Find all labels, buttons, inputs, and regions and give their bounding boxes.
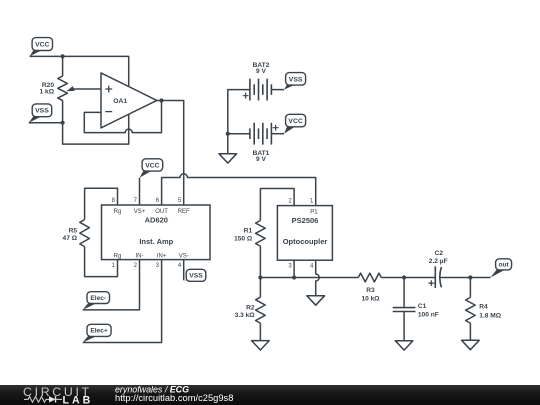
resistor R1 150 Ω <box>234 221 265 247</box>
wire AD620 pin 4 VS- to VSS flag <box>183 260 185 281</box>
wire BAT1 negative to battery junction <box>228 133 250 135</box>
wire OA1 feedback out to -in <box>84 101 161 133</box>
svg-text:VSS: VSS <box>189 273 203 280</box>
svg-text:out: out <box>498 262 509 269</box>
capacitor C2 2.2 µF polarized <box>428 250 447 288</box>
node R20 top <box>61 54 65 58</box>
svg-text:REF: REF <box>178 209 190 215</box>
wire R3 to C2 <box>381 277 435 279</box>
svg-text:IN+: IN+ <box>157 253 167 259</box>
net flag Elec- <box>83 292 110 310</box>
svg-text:R1: R1 <box>244 227 253 234</box>
ground (R2) <box>252 341 270 350</box>
svg-text:P1: P1 <box>310 209 318 215</box>
node R1 R2 rail <box>258 275 262 279</box>
net flag VSS (AD620 VS-) <box>184 269 206 281</box>
net flag out <box>491 259 512 278</box>
node R20 bottom <box>61 121 65 125</box>
net flag Elec+ <box>83 324 111 342</box>
svg-text:VSS: VSS <box>35 108 49 115</box>
wire AD620 pin 8 Rg to R5 top <box>85 188 118 219</box>
resistor R2 3.3 kΩ <box>235 297 266 323</box>
svg-text:3.3 kΩ: 3.3 kΩ <box>235 312 256 319</box>
svg-text:VS+: VS+ <box>134 209 146 215</box>
svg-text:9 V: 9 V <box>256 156 266 163</box>
wire node to R4 top <box>469 278 471 298</box>
node R4 tap <box>468 275 472 279</box>
svg-text:100 nF: 100 nF <box>418 311 439 318</box>
wire AD620 pin 6 OUT to PS2506 pin 1 <box>162 174 316 206</box>
op-amp OA1 <box>101 73 157 128</box>
net flag VCC (R20 top) <box>30 38 53 57</box>
svg-text:R5: R5 <box>69 228 78 235</box>
svg-text:1 kΩ: 1 kΩ <box>40 89 55 96</box>
ground (R4) <box>462 340 480 349</box>
svg-text:Elec+: Elec+ <box>90 328 108 335</box>
svg-text:Optocoupler: Optocoupler <box>283 237 328 246</box>
wire VSS flag to R20 bottom node <box>29 122 63 124</box>
CircuitLab footer bar <box>0 385 540 405</box>
svg-text:R3: R3 <box>366 287 375 294</box>
wire R2 bottom to ground <box>259 323 261 341</box>
wire C2 to out flag <box>440 277 490 279</box>
resistor R5 47 Ω <box>63 220 90 247</box>
svg-text:Rg: Rg <box>114 253 122 259</box>
wire R20 top node to OA1 V+ pin <box>63 56 129 86</box>
wire BAT2 positive to battery junction <box>228 90 250 134</box>
svg-text:10 kΩ: 10 kΩ <box>361 296 380 303</box>
wire R5 bottom to AD620 pin 1 Rg <box>85 247 118 277</box>
svg-text:VS-: VS- <box>179 253 189 259</box>
IC U1 AD620 instrumentation amplifier <box>102 198 211 269</box>
resistor R3 10 kΩ <box>358 273 381 303</box>
wire R1 bottom to rail node <box>259 246 261 277</box>
svg-text:VCC: VCC <box>145 162 159 169</box>
svg-text:OUT: OUT <box>155 209 168 215</box>
svg-text:AD620: AD620 <box>145 216 168 225</box>
capacitor C1 100 nF <box>393 303 439 319</box>
wire AD620 pin 2 IN- to Elec- flag <box>83 260 140 310</box>
svg-text:1.8 MΩ: 1.8 MΩ <box>479 312 501 319</box>
net flag VCC (BAT1) <box>284 114 306 133</box>
ground (PS2506 pin 4) <box>307 296 325 305</box>
svg-text:http://circuitlab.com/c25g9s8: http://circuitlab.com/c25g9s8 <box>115 393 233 403</box>
svg-text:IN-: IN- <box>136 253 144 259</box>
svg-text:9 V: 9 V <box>256 68 266 75</box>
svg-text:OA1: OA1 <box>113 98 127 105</box>
svg-text:R4: R4 <box>479 304 488 311</box>
footer text <box>115 384 233 403</box>
svg-text:2.2 µF: 2.2 µF <box>429 258 448 265</box>
wire battery junction to ground <box>227 134 229 154</box>
wire BAT1 positive to VCC flag <box>271 133 284 135</box>
potentiometer R20 1 kΩ <box>40 56 75 122</box>
wire node to C1 top plate <box>403 278 405 308</box>
wire PS2506 pin 4 to ground (hops rail) <box>316 260 320 296</box>
wire PS2506 pin 3 to rail <box>293 260 295 277</box>
svg-text:C2: C2 <box>435 250 444 257</box>
CircuitLab logo <box>23 385 93 405</box>
resistor R4 1.8 MΩ <box>466 297 502 323</box>
wire PS2506 pin 2 to R1 top <box>260 189 294 221</box>
svg-text:LAB: LAB <box>63 394 94 405</box>
svg-text:Elec-: Elec- <box>90 295 106 302</box>
wire OA1 output to AD620 REF pin 5 <box>157 101 184 206</box>
net flag VCC (AD620 VS+) <box>140 159 163 178</box>
wire rail to R3 <box>260 277 358 279</box>
svg-text:VCC: VCC <box>288 118 302 125</box>
svg-text:150 Ω: 150 Ω <box>234 235 253 242</box>
svg-text:Inst. Amp: Inst. Amp <box>139 237 173 246</box>
wire BAT2 negative to VSS flag <box>271 89 284 91</box>
svg-text:R2: R2 <box>246 305 255 312</box>
wire VCC flag to R20 top node <box>30 55 63 57</box>
battery BAT2 9 V <box>243 62 272 101</box>
node C1 tap <box>402 275 406 279</box>
ground (C1) <box>395 341 413 350</box>
wire OA1 +in to R20 wiper <box>73 88 102 90</box>
ground (batteries) <box>219 154 237 163</box>
wire VCC flag to AD620 pin 7 VS+ <box>139 178 141 205</box>
svg-text:47 Ω: 47 Ω <box>63 235 78 242</box>
wire C1 bottom plate to ground <box>403 312 405 341</box>
svg-text:Rg: Rg <box>114 209 122 215</box>
svg-text:VCC: VCC <box>35 42 49 49</box>
net flag VSS (R20 bottom) <box>29 104 52 123</box>
node PS2506 pin 3 rail <box>292 275 296 279</box>
wire R20 bottom node to OA1 V- pin <box>63 114 129 144</box>
node battery junction <box>226 132 230 136</box>
IC U2 PS2506 optocoupler <box>277 198 332 269</box>
net flag VSS (BAT2) <box>284 73 306 90</box>
svg-text:VSS: VSS <box>289 76 303 83</box>
wire R4 bottom to ground <box>469 323 471 340</box>
node OA1 output <box>159 98 163 102</box>
svg-text:PS2506: PS2506 <box>292 216 319 225</box>
wire AD620 pin 3 IN+ to Elec+ flag <box>83 260 162 343</box>
svg-text:C1: C1 <box>418 303 427 310</box>
wire rail node to R2 top <box>259 278 261 298</box>
battery BAT1 9 V <box>250 123 279 163</box>
